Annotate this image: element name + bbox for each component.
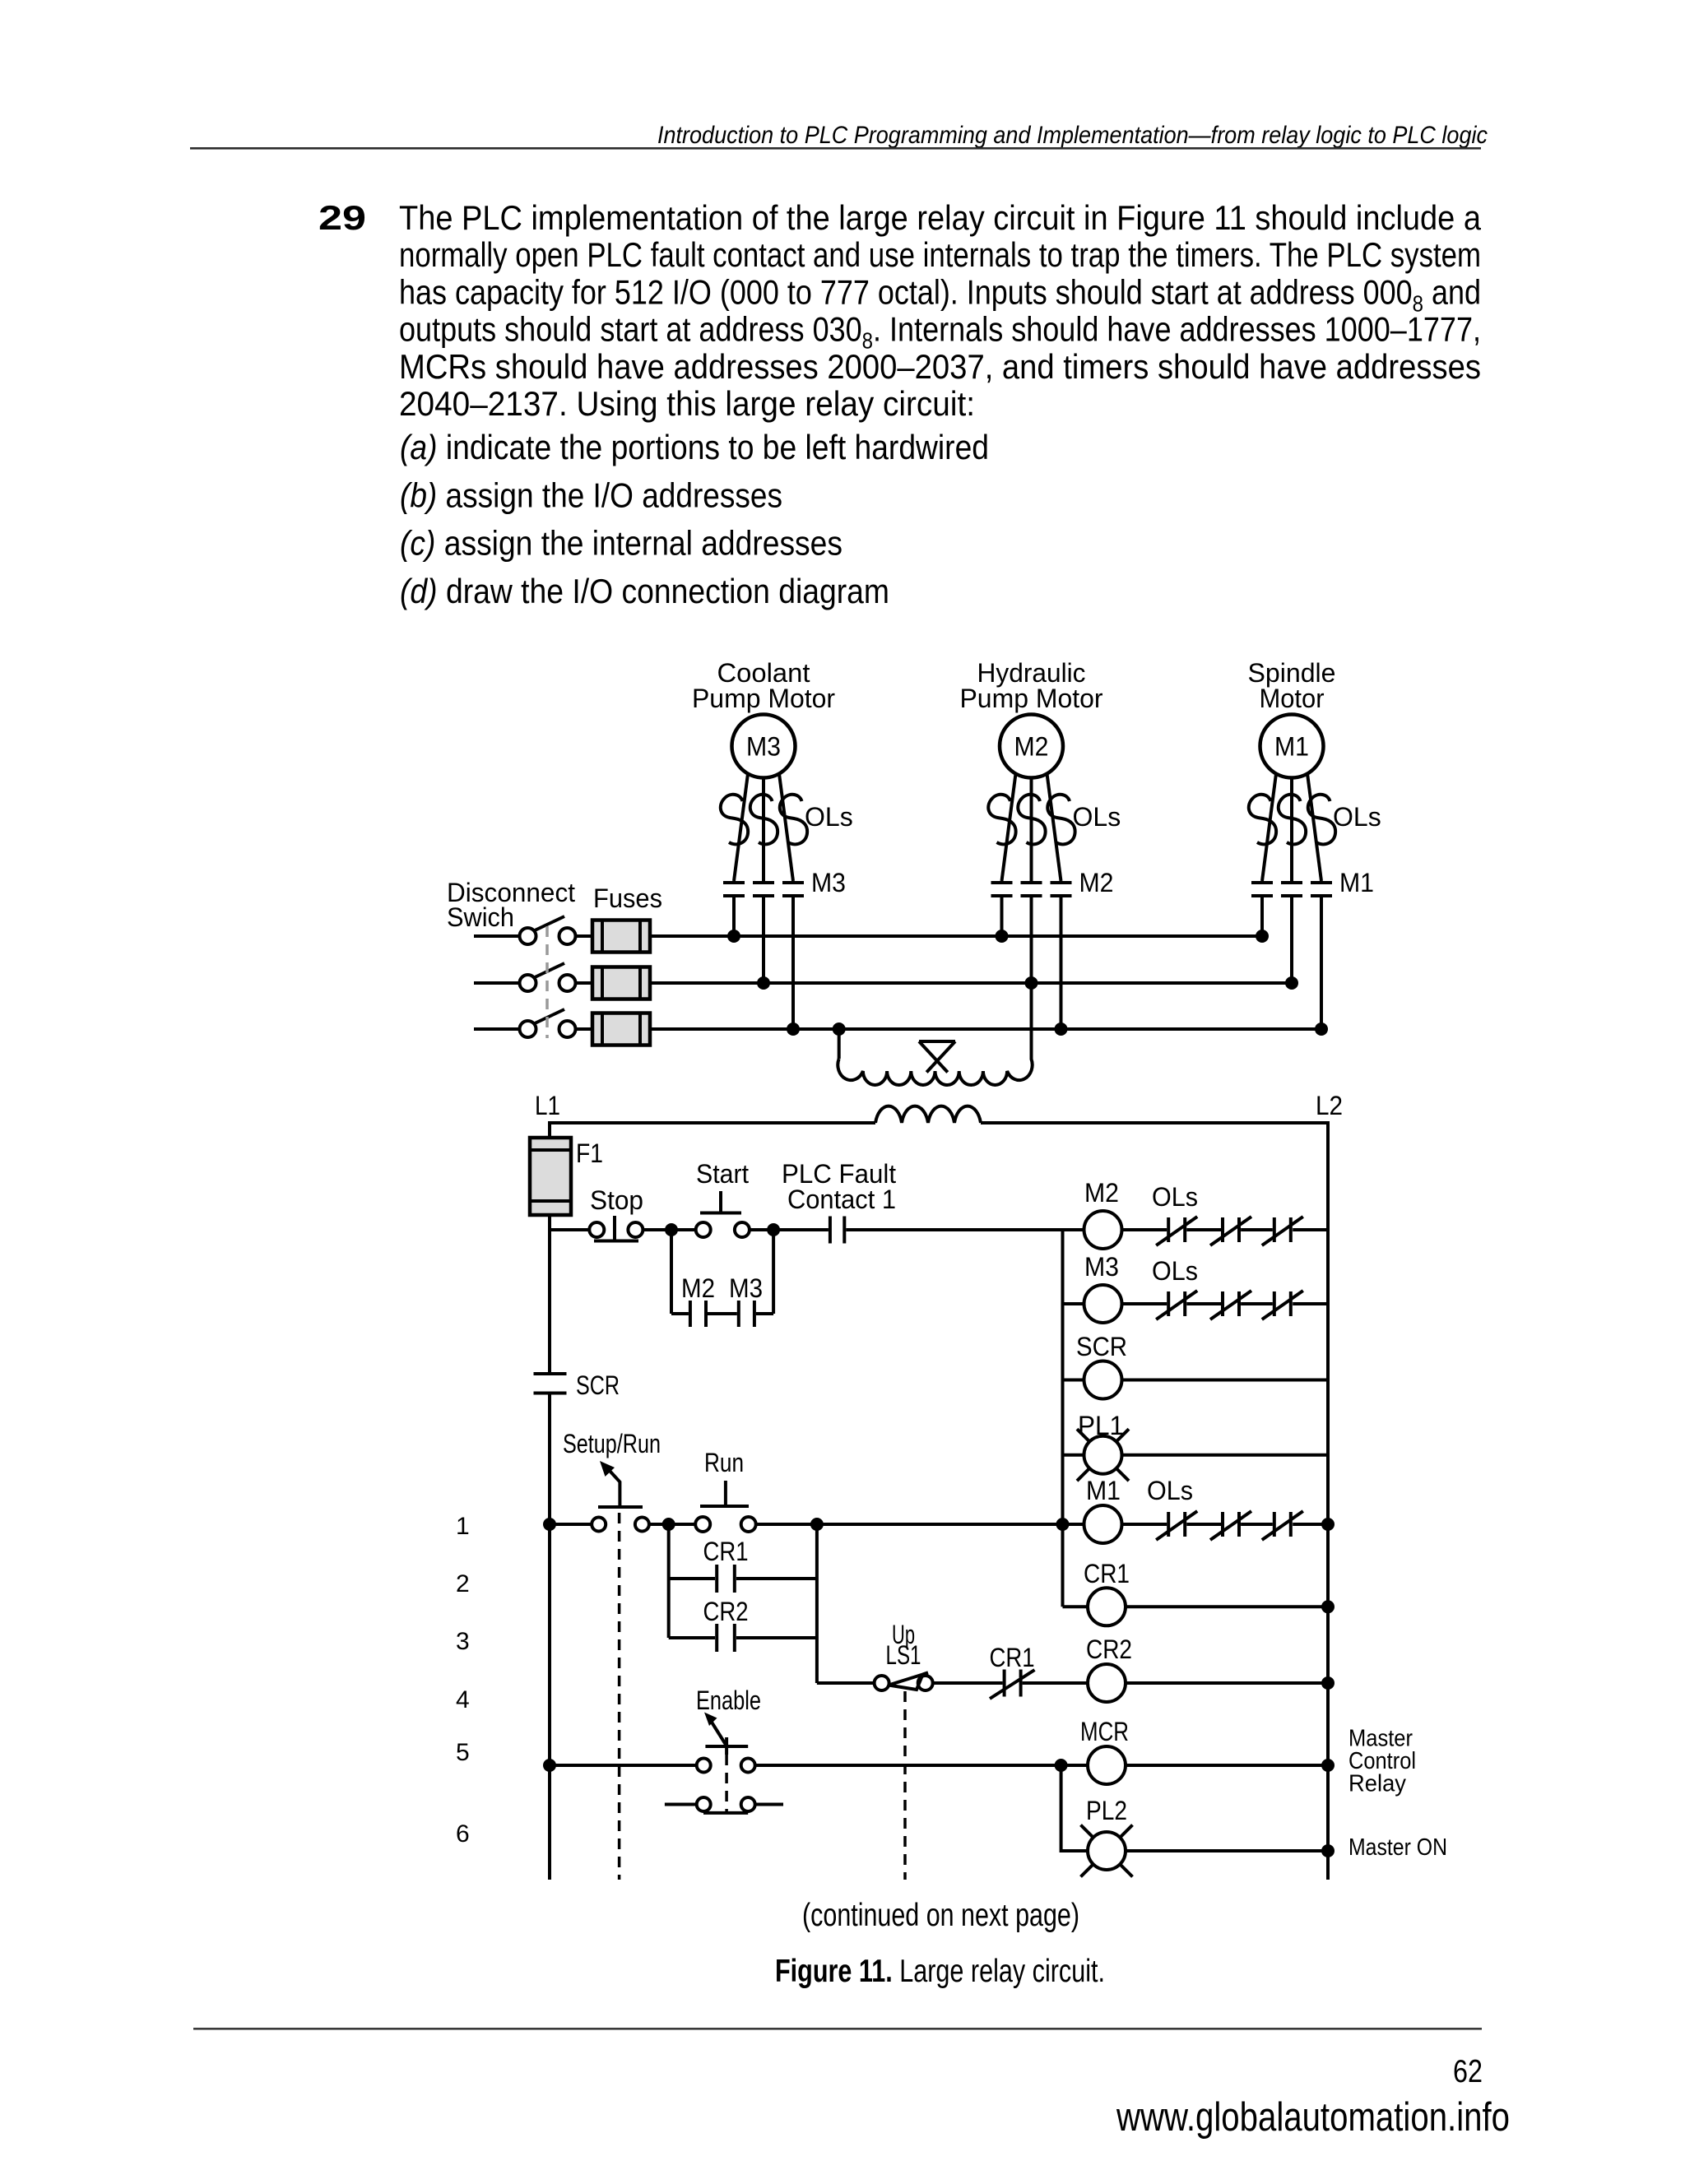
contact PLC Fault Contact 1 (NO) bbox=[782, 1159, 896, 1244]
svg-text:(d) draw the I/O connection di: (d) draw the I/O connection diagram bbox=[400, 572, 889, 610]
wire: phase 3 bus bbox=[650, 1027, 1321, 1031]
wire: phase 2 bus left stub bbox=[474, 981, 520, 985]
svg-text:SCR: SCR bbox=[1076, 1332, 1127, 1361]
pilot light PL1 bbox=[1077, 1411, 1129, 1481]
dashed link: Setup/Run to PLC boundary (vertical) bbox=[618, 1513, 621, 1880]
coil MCR bbox=[1080, 1717, 1129, 1784]
svg-text:normally open PLC fault contac: normally open PLC fault contact and use … bbox=[399, 235, 1481, 274]
svg-text:M2: M2 bbox=[681, 1273, 715, 1303]
svg-text:M3: M3 bbox=[1084, 1252, 1119, 1282]
list item (c) bbox=[400, 524, 842, 563]
disconnect switch pole phase 3 bbox=[520, 1009, 576, 1037]
svg-text:M2: M2 bbox=[1084, 1178, 1119, 1208]
wire: CR1 NC to CR2 coil bbox=[1023, 1681, 1088, 1685]
node L2 label bbox=[1316, 1091, 1343, 1120]
overload heater OL M1 phase 2 bbox=[1279, 795, 1306, 845]
junction node: M1 phase 2 on bus bbox=[1285, 976, 1298, 990]
fuse phase 3 bbox=[592, 1013, 650, 1046]
svg-text:M1: M1 bbox=[1274, 732, 1309, 762]
junction node: right rail CR2 rung bbox=[1321, 1676, 1335, 1690]
wire: M1 contact phase 2 down to bus L2 bbox=[1290, 896, 1293, 983]
svg-text:Start: Start bbox=[696, 1159, 749, 1189]
wire: transformer primary right lead up to phase 2 bus (shared with M2 lead) bbox=[1030, 983, 1033, 1060]
svg-text:CR2: CR2 bbox=[703, 1597, 749, 1626]
wire: M3 rung from tee bbox=[1063, 1302, 1084, 1305]
junction node: output tee on rung 1 bbox=[1056, 1518, 1070, 1531]
wire: phase 3 bus left stub bbox=[474, 1027, 520, 1031]
wire: M1 rung OL gaps bbox=[1186, 1523, 1328, 1526]
contact CR2 (NO, branch) bbox=[669, 1597, 817, 1652]
wire: M2 rung OL gaps bbox=[1186, 1228, 1328, 1231]
OLs label for motor M2 bbox=[1073, 802, 1121, 832]
pushbutton Start (NO) bbox=[696, 1159, 750, 1237]
wire: seal-in branch bottom right segment bbox=[756, 1312, 773, 1315]
wire: M3 coil to OL contacts bbox=[1122, 1302, 1167, 1305]
wire: PLC fault contact to coil M2 bbox=[846, 1228, 1084, 1231]
wire: CR1 coil to right rail bbox=[1126, 1605, 1328, 1608]
wire: left rail SCR contact to bottom bbox=[548, 1393, 551, 1880]
svg-text:Contact 1: Contact 1 bbox=[787, 1185, 896, 1214]
site watermark bbox=[1116, 2095, 1510, 2140]
junction node: right rail rung 5 bbox=[1321, 1759, 1335, 1772]
svg-text:OLs: OLs bbox=[1073, 802, 1121, 832]
overload heater OL M2 phase 3 bbox=[1047, 795, 1075, 845]
contactor M3 power contact phase 1 bbox=[723, 883, 745, 896]
overload heater OL M3 phase 2 bbox=[750, 795, 778, 845]
NC overload contact 2 (M3 rung) bbox=[1210, 1291, 1251, 1319]
wire: Start to junction bbox=[750, 1228, 829, 1231]
contactor M2 contact label bbox=[1079, 868, 1114, 897]
junction node: M1 phase 1 on bus bbox=[1256, 930, 1269, 943]
wire: rung 1 from left rail to Stop bbox=[550, 1228, 590, 1231]
wire: MCR coil to right rail bbox=[1126, 1764, 1328, 1767]
wire: motor M2 lead 1 (top) bbox=[1002, 774, 1016, 882]
wire: CR branch left vertical bbox=[667, 1524, 671, 1638]
motor M3 circle symbol bbox=[732, 715, 796, 778]
coil M1 bbox=[1084, 1476, 1122, 1543]
wire: motor M2 lead 2 (middle) bbox=[1030, 778, 1033, 882]
dashed link: LS1 down (vertical) bbox=[903, 1691, 907, 1880]
fuse F1 bbox=[530, 1138, 603, 1215]
NC overload contact 3 (M3 rung) bbox=[1262, 1291, 1303, 1319]
motor M3 title label bbox=[692, 658, 835, 713]
junction node: CR1/CR2 branch left bbox=[662, 1518, 675, 1531]
svg-text:Master ON: Master ON bbox=[1348, 1834, 1447, 1861]
svg-text:Enable: Enable bbox=[696, 1686, 761, 1715]
control transformer primary left lead from phase 3 bus bbox=[833, 1022, 846, 1059]
svg-text:(b) assign the I/O addresses: (b) assign the I/O addresses bbox=[400, 475, 782, 514]
disconnect switch pole phase 1 bbox=[520, 916, 576, 944]
pushbutton Run (NO) bbox=[695, 1448, 756, 1532]
pushbutton Stop (NC) bbox=[589, 1185, 643, 1241]
svg-text:Pump Motor: Pump Motor bbox=[692, 684, 835, 713]
NC overload contact 2 (M2 rung) bbox=[1210, 1217, 1251, 1245]
svg-text:Motor: Motor bbox=[1260, 684, 1325, 713]
NC overload contact 1 (M2 rung) bbox=[1156, 1217, 1197, 1245]
wire: motor M3 lead 1 (top) bbox=[734, 774, 748, 882]
selector switch Enable (deck 2) bbox=[665, 1797, 783, 1813]
svg-text:1: 1 bbox=[456, 1513, 470, 1540]
contactor M3 power contact phase 2 bbox=[753, 883, 774, 896]
wire: CR2 coil to right rail bbox=[1126, 1681, 1328, 1685]
contactor M3 contact label bbox=[811, 868, 846, 897]
disconnect switch pole phase 2 bbox=[520, 963, 576, 991]
OLs label for motor M3 bbox=[805, 802, 853, 832]
svg-text:The PLC implementation of the: The PLC implementation of the large rela… bbox=[399, 198, 1482, 237]
wire: phase 1 switch to fuse bbox=[576, 934, 593, 938]
OLs label (M1 rung) bbox=[1147, 1476, 1193, 1505]
svg-text:SCR: SCR bbox=[576, 1370, 620, 1400]
wire: PL1 to right rail bbox=[1122, 1454, 1329, 1457]
list item (d) bbox=[400, 572, 889, 610]
Master Control Relay label bbox=[1348, 1726, 1416, 1797]
svg-text:OLs: OLs bbox=[805, 802, 853, 832]
wire: motor M2 lead 3 (bottom) bbox=[1047, 774, 1061, 882]
contactor M2 power contact phase 1 bbox=[991, 883, 1013, 896]
svg-text:Introduction to PLC Programmin: Introduction to PLC Programming and Impl… bbox=[657, 122, 1488, 149]
rung number 2 bbox=[456, 1570, 470, 1597]
wire: M1 contact phase 3 down to bus L3 bbox=[1320, 896, 1323, 1029]
svg-text:L2: L2 bbox=[1316, 1091, 1343, 1120]
svg-text:M3: M3 bbox=[729, 1273, 763, 1303]
junction node: right rail rung 1 bbox=[1321, 1518, 1335, 1531]
wire: M2 contact phase 3 down to bus L3 bbox=[1060, 896, 1063, 1029]
wire: M3 contact phase 2 down to bus L2 bbox=[762, 896, 765, 983]
svg-text:CR2: CR2 bbox=[1086, 1635, 1132, 1664]
wire: M2 contact phase 2 down to bus L2 bbox=[1030, 896, 1033, 983]
transformer fuse/arrow X symbol bbox=[919, 1041, 955, 1073]
wire: PL2 to right rail bbox=[1126, 1849, 1328, 1852]
rung number 5 bbox=[456, 1739, 470, 1766]
wire: seal-in branch middle segment bbox=[708, 1312, 737, 1315]
wire: M1 contact phase 1 down to bus L1 bbox=[1260, 896, 1264, 936]
svg-text:OLs: OLs bbox=[1152, 1182, 1198, 1212]
NC overload contact 3 (M1 rung) bbox=[1262, 1511, 1303, 1540]
svg-text:OLs: OLs bbox=[1152, 1256, 1198, 1286]
junction node: M3 phase 1 on bus bbox=[727, 930, 740, 943]
dashed link: Enable decks bbox=[725, 1755, 728, 1812]
svg-text:Pump Motor: Pump Motor bbox=[960, 684, 1103, 713]
wire: rung 4 corner from vertical bbox=[817, 1681, 875, 1685]
svg-text:6: 6 bbox=[456, 1820, 470, 1848]
overload heater OL M3 phase 3 bbox=[780, 795, 807, 845]
svg-text:OLs: OLs bbox=[1333, 802, 1381, 832]
fuses label bbox=[593, 883, 662, 913]
overload heater OL M1 phase 1 bbox=[1249, 795, 1276, 845]
junction node: M2 phase 2 on bus bbox=[1025, 976, 1038, 990]
svg-text:3: 3 bbox=[456, 1628, 470, 1655]
svg-text:L1: L1 bbox=[535, 1091, 560, 1120]
contact M3 (NO, seal-in) bbox=[729, 1273, 763, 1327]
svg-text:M3: M3 bbox=[746, 732, 781, 762]
coil CR1 bbox=[1084, 1559, 1130, 1625]
wire: PL1 rung from tee bbox=[1063, 1454, 1084, 1457]
motor M2 title label bbox=[960, 658, 1103, 713]
wire: phase 2 bus bbox=[650, 981, 1292, 985]
svg-text:5: 5 bbox=[456, 1739, 470, 1766]
wire: M2 coil to OL contacts bbox=[1122, 1228, 1167, 1231]
junction node: M2 phase 3 on bus bbox=[1055, 1022, 1068, 1036]
foot rule bbox=[193, 2028, 1482, 2030]
contactor M1 power contact phase 2 bbox=[1281, 883, 1302, 896]
wire: motor M3 lead 3 (bottom) bbox=[779, 774, 793, 882]
svg-text:Setup/Run: Setup/Run bbox=[563, 1429, 661, 1458]
selector switch Enable (deck 1) bbox=[696, 1686, 761, 1773]
svg-text:Relay: Relay bbox=[1348, 1771, 1406, 1797]
rung number 4 bbox=[456, 1686, 470, 1713]
overload heater OL M2 phase 1 bbox=[988, 795, 1015, 845]
coil SCR bbox=[1076, 1332, 1127, 1399]
continued note bbox=[802, 1898, 1079, 1933]
svg-text:www.globalautomation.info: www.globalautomation.info bbox=[1116, 2095, 1510, 2140]
wire: M1 coil to OL contacts bbox=[1122, 1523, 1167, 1526]
wire: motor M1 lead 2 (middle) bbox=[1290, 778, 1293, 882]
selector switch Setup/Run bbox=[563, 1429, 661, 1532]
node L1 label bbox=[535, 1091, 560, 1120]
rung number 6 bbox=[456, 1820, 470, 1848]
svg-text:OLs: OLs bbox=[1147, 1476, 1193, 1505]
wire: seal-in branch right vertical bbox=[772, 1230, 775, 1314]
contact CR1 (NC) bbox=[990, 1643, 1035, 1699]
wire: Enable to MCR coil bbox=[755, 1764, 1088, 1767]
junction node: right rail CR1 rung bbox=[1321, 1600, 1335, 1613]
junction node: M1 phase 3 on bus bbox=[1315, 1022, 1328, 1036]
overload heater OL M3 phase 1 bbox=[721, 795, 748, 845]
contactor M2 power contact phase 3 bbox=[1051, 883, 1072, 896]
svg-text:2040–2137. Using this large re: 2040–2137. Using this large relay circui… bbox=[399, 384, 975, 423]
contact M2 (NO, seal-in) bbox=[681, 1273, 715, 1327]
wire: output branch vertical (rung tee) bbox=[1061, 1230, 1065, 1607]
contactor M1 power contact phase 3 bbox=[1311, 883, 1332, 896]
NC overload contact 3 (M2 rung) bbox=[1262, 1217, 1303, 1245]
OLs label for motor M1 bbox=[1333, 802, 1381, 832]
junction node: M3 phase 3 on bus bbox=[787, 1022, 800, 1036]
svg-text:(a) indicate the portions to b: (a) indicate the portions to be left har… bbox=[400, 428, 989, 466]
svg-text:M1: M1 bbox=[1086, 1476, 1121, 1505]
OLs label (M2 rung) bbox=[1152, 1182, 1198, 1212]
Master ON label bbox=[1348, 1834, 1447, 1861]
contactor M1 contact label bbox=[1339, 868, 1374, 897]
svg-text:CR1: CR1 bbox=[1084, 1559, 1130, 1588]
wire: M3 rung OL gaps bbox=[1186, 1302, 1328, 1305]
fuse phase 2 bbox=[592, 967, 650, 999]
wire: left rail F1 to SCR contact bbox=[548, 1215, 551, 1374]
list item (b) bbox=[400, 475, 782, 514]
svg-text:Figure 11. Large relay circuit: Figure 11. Large relay circuit. bbox=[775, 1954, 1105, 1989]
svg-text:CR1: CR1 bbox=[990, 1643, 1035, 1672]
junction node: M2 phase 1 on bus bbox=[996, 930, 1009, 943]
rung number 3 bbox=[456, 1628, 470, 1655]
junction node (Stop/Start/M2M3 branch) bbox=[665, 1223, 678, 1236]
wire: M3 contact phase 1 down to bus L1 bbox=[732, 896, 736, 936]
NC overload contact 1 (M1 rung) bbox=[1156, 1511, 1197, 1540]
wire: M2 contact phase 1 down to bus L1 bbox=[1000, 896, 1004, 936]
wire: Stop to junction bbox=[643, 1228, 695, 1231]
junction node: M3 phase 2 on bus bbox=[757, 976, 770, 990]
coil M3 bbox=[1084, 1252, 1122, 1323]
svg-text:M2: M2 bbox=[1079, 868, 1114, 897]
junction node: right rail PL2 rung bbox=[1321, 1844, 1335, 1857]
wire: phase 1 bus left stub bbox=[474, 934, 520, 938]
svg-text:Swich: Swich bbox=[447, 902, 514, 932]
wire: left rail to Setup/Run switch bbox=[550, 1523, 592, 1526]
coil M2 bbox=[1084, 1178, 1122, 1249]
svg-text:4: 4 bbox=[456, 1686, 470, 1713]
wire: PL2 branch vertical bbox=[1061, 1765, 1088, 1851]
svg-text:Run: Run bbox=[704, 1448, 744, 1477]
running head bbox=[657, 122, 1488, 149]
svg-text:29: 29 bbox=[318, 198, 366, 237]
control transformer secondary winding bbox=[875, 1106, 981, 1123]
problem number 29 bbox=[318, 198, 366, 237]
svg-text:LS1: LS1 bbox=[886, 1640, 921, 1670]
wire: LS1 to CR1 NC contact bbox=[933, 1681, 1003, 1685]
figure caption bbox=[775, 1954, 1105, 1989]
junction node: PL2 branch on rung 5 bbox=[1055, 1759, 1068, 1772]
wire: motor M3 lead 2 (middle) bbox=[762, 778, 765, 882]
disconnect switch gang dashed link bbox=[545, 926, 549, 1038]
wire: top rail left of secondary bbox=[550, 1123, 875, 1138]
page number 62 bbox=[1453, 2054, 1483, 2089]
coil CR2 bbox=[1086, 1635, 1132, 1702]
disconnect switch label bbox=[447, 878, 575, 932]
wire: SCR rung from tee bbox=[1063, 1379, 1084, 1382]
svg-text:M2: M2 bbox=[1014, 732, 1049, 762]
overload heater OL M2 phase 2 bbox=[1018, 795, 1045, 845]
rung number 1 bbox=[456, 1513, 470, 1540]
svg-text:Stop: Stop bbox=[590, 1185, 643, 1215]
wire: phase 2 switch to fuse bbox=[576, 981, 593, 985]
svg-text:(c) assign the internal addres: (c) assign the internal addresses bbox=[400, 524, 842, 563]
NC overload contact 2 (M1 rung) bbox=[1210, 1511, 1251, 1540]
contact SCR (in left rail) bbox=[534, 1370, 620, 1400]
svg-text:M1: M1 bbox=[1339, 868, 1374, 897]
junction node: CR1/CR2 branch right / LS1 drop bbox=[810, 1518, 824, 1531]
wire: Run to M1 rung bbox=[756, 1523, 1084, 1526]
limit switch LS1 (Up) bbox=[875, 1620, 933, 1690]
junction node (Start right / M2M3 branch right) bbox=[767, 1223, 780, 1236]
svg-text:MCRs should have addresses 200: MCRs should have addresses 2000–2037, an… bbox=[399, 347, 1481, 386]
wire: M3 contact phase 3 down to bus L3 bbox=[791, 896, 795, 1029]
control transformer primary winding bbox=[838, 1059, 1032, 1085]
wire: Setup/Run to junction bbox=[649, 1523, 695, 1526]
wire: motor M1 lead 3 (bottom) bbox=[1307, 774, 1321, 882]
svg-text:(continued on next page): (continued on next page) bbox=[802, 1898, 1079, 1933]
motor M1 title label bbox=[1248, 658, 1336, 713]
svg-text:62: 62 bbox=[1453, 2054, 1483, 2089]
OLs label (M3 rung) bbox=[1152, 1256, 1198, 1286]
svg-text:2: 2 bbox=[456, 1570, 470, 1597]
junction node: left rail rung 5 bbox=[543, 1759, 556, 1772]
fuse phase 1 bbox=[592, 920, 650, 953]
contactor M2 power contact phase 2 bbox=[1021, 883, 1042, 896]
wire: left rail to Enable selector bbox=[550, 1764, 697, 1767]
pilot light PL2 bbox=[1081, 1796, 1133, 1877]
wire: SCR coil to right rail bbox=[1122, 1379, 1329, 1382]
wire: phase 1 bus bbox=[650, 934, 1262, 938]
svg-text:F1: F1 bbox=[576, 1138, 603, 1168]
junction node: left rail rung 1 bbox=[543, 1518, 556, 1531]
svg-text:Fuses: Fuses bbox=[593, 883, 662, 913]
wire: seal-in branch left vertical bbox=[670, 1230, 673, 1314]
list item (a) bbox=[400, 428, 989, 466]
problem statement paragraph bbox=[399, 198, 1482, 423]
svg-text:CR1: CR1 bbox=[703, 1537, 749, 1566]
NC overload contact 1 (M3 rung) bbox=[1156, 1291, 1197, 1319]
wire: CR1 coil rung from tee bbox=[1063, 1605, 1089, 1608]
svg-text:PL2: PL2 bbox=[1086, 1796, 1127, 1825]
contactor M3 power contact phase 3 bbox=[782, 883, 804, 896]
svg-text:M3: M3 bbox=[811, 868, 846, 897]
motor M2 circle symbol bbox=[1000, 715, 1063, 778]
contactor M1 power contact phase 1 bbox=[1251, 883, 1273, 896]
contact CR1 (NO, branch) bbox=[669, 1537, 817, 1593]
motor M1 circle symbol bbox=[1260, 715, 1324, 778]
wire: seal-in branch bottom left segment bbox=[671, 1312, 689, 1315]
svg-text:MCR: MCR bbox=[1080, 1717, 1129, 1746]
head rule bbox=[190, 147, 1481, 150]
wire: motor M1 lead 1 (top) bbox=[1262, 774, 1276, 882]
wire: phase 3 switch to fuse bbox=[576, 1027, 593, 1031]
overload heater OL M1 phase 3 bbox=[1308, 795, 1335, 845]
wire: top rail right of secondary bbox=[981, 1123, 1328, 1880]
wire: CR branch right vertical bbox=[815, 1524, 819, 1683]
